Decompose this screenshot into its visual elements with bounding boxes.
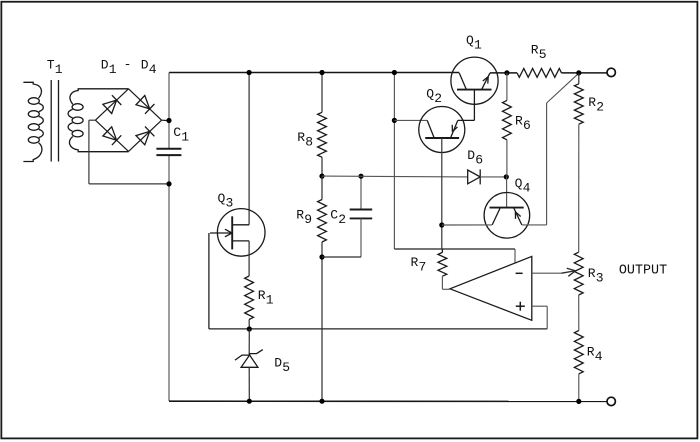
wire bottom ground rail bbox=[169, 400, 607, 402]
wire R1 bottom to junction bbox=[248, 320, 250, 330]
diode D6 bbox=[468, 169, 481, 184]
wire node to R2 bbox=[578, 73, 580, 84]
resistor R2 bbox=[574, 84, 583, 124]
resistor R7 bbox=[438, 249, 447, 276]
wire left vertical from top rail through C1 bbox=[168, 73, 170, 401]
svg-text:D: D bbox=[467, 148, 475, 163]
wire drop to op-amp top edge bbox=[514, 249, 516, 263]
svg-text:R: R bbox=[587, 344, 595, 359]
resistor R1 bbox=[245, 276, 254, 320]
bridge rectifier frame wires bbox=[95, 89, 166, 152]
svg-text:5: 5 bbox=[282, 360, 290, 375]
svg-text:4: 4 bbox=[595, 349, 603, 364]
wire R9 top lead bbox=[321, 176, 323, 199]
resistor R8 bbox=[318, 112, 327, 157]
svg-text:D: D bbox=[141, 58, 149, 73]
transformer T1 core bbox=[51, 80, 58, 162]
wire R6 bottom to D6 node bbox=[506, 140, 508, 177]
svg-text:5: 5 bbox=[539, 47, 547, 62]
wire R8 to node bbox=[321, 157, 323, 176]
svg-text:6: 6 bbox=[475, 153, 483, 168]
transistor Q3 bbox=[210, 209, 265, 257]
junction dot Q1 emitter / R5 / R6 bbox=[504, 70, 509, 75]
transistor Q4 bbox=[484, 193, 530, 239]
wire R1 junction to D5 bbox=[248, 329, 250, 355]
junction dot D5 ground bbox=[247, 399, 252, 404]
wire R2 bottom to R3 top bbox=[578, 124, 580, 252]
resistor R6 bbox=[503, 100, 512, 139]
capacitor C2 bbox=[350, 210, 373, 219]
wire branch to op-amp inverting side bbox=[394, 248, 515, 250]
svg-text:Q: Q bbox=[466, 33, 474, 48]
svg-text:3: 3 bbox=[226, 196, 234, 211]
wire Q4 collector lead to Q2 base line bbox=[442, 224, 492, 226]
wire R7 bottom to op-amp output bbox=[442, 276, 450, 289]
svg-text:R: R bbox=[515, 114, 523, 129]
svg-text:Q: Q bbox=[426, 87, 434, 102]
svg-text:R: R bbox=[297, 130, 305, 145]
svg-text:1: 1 bbox=[181, 130, 189, 145]
svg-text:R: R bbox=[296, 208, 304, 223]
transformer T1 primary winding bbox=[23, 82, 43, 161]
wire op-amp non-inverting input bbox=[532, 306, 547, 329]
wire V+ branch vertical bbox=[393, 73, 395, 250]
junction dot C2 top bbox=[358, 174, 363, 179]
svg-text:2: 2 bbox=[596, 100, 604, 115]
svg-text:3: 3 bbox=[596, 270, 604, 285]
svg-text:C: C bbox=[173, 125, 181, 140]
wire Q3 drain to top rail bbox=[248, 73, 250, 225]
junction dot top rail / R8 bbox=[319, 70, 324, 75]
wire R4 to ground rail bbox=[578, 374, 580, 402]
svg-text:1: 1 bbox=[109, 62, 117, 77]
wire Q4 emitter to R5/R2 node bbox=[522, 74, 579, 225]
svg-text:D: D bbox=[101, 58, 109, 73]
svg-text:2: 2 bbox=[338, 212, 346, 227]
svg-text:4: 4 bbox=[149, 62, 157, 77]
junction dot R8/R9 node bbox=[319, 174, 324, 179]
svg-text:-: - bbox=[124, 57, 132, 72]
op-amp U1 bbox=[450, 256, 532, 320]
junction dot R9 ground bbox=[319, 399, 324, 404]
capacitor C1 bbox=[156, 149, 181, 155]
resistor R9 bbox=[318, 200, 327, 243]
svg-text:1: 1 bbox=[55, 62, 63, 77]
svg-text:R: R bbox=[258, 288, 266, 303]
junction dot top rail / Q3 bbox=[247, 70, 252, 75]
svg-text:T: T bbox=[47, 58, 55, 73]
wire Q4 base lead bbox=[506, 177, 508, 208]
wire top rail to R8 bbox=[321, 73, 323, 113]
svg-text:9: 9 bbox=[304, 212, 312, 227]
diode D1 (bridge top-left) bbox=[103, 95, 121, 113]
transistor Q2 bbox=[419, 107, 475, 153]
svg-text:Q: Q bbox=[218, 191, 226, 206]
resistor R5 bbox=[517, 69, 561, 78]
junction node bridge output + bbox=[166, 118, 171, 123]
transistor Q1 bbox=[451, 57, 498, 120]
svg-text:2: 2 bbox=[434, 91, 442, 106]
junction dot D6/R6/Q4 base bbox=[504, 174, 509, 179]
svg-text:R: R bbox=[588, 266, 596, 281]
wire Q3 gate feedback rail bbox=[209, 233, 547, 329]
transformer T1 secondary winding bbox=[68, 89, 129, 152]
potentiometer R3 bbox=[574, 252, 583, 295]
junction dot Q2 base / Q4 collector bbox=[439, 222, 444, 227]
svg-text:D: D bbox=[274, 356, 282, 371]
junction node C1 bottom bbox=[166, 181, 171, 186]
svg-text:Q: Q bbox=[515, 176, 523, 191]
junction dot R5/R2 node bbox=[576, 70, 581, 75]
wire D6 cathode to node bbox=[480, 176, 506, 178]
svg-text:4: 4 bbox=[523, 181, 531, 196]
svg-text:6: 6 bbox=[523, 118, 531, 133]
svg-text:1: 1 bbox=[474, 38, 482, 53]
svg-text:R: R bbox=[531, 43, 539, 58]
wire op-amp inverting input to R3 wiper bbox=[532, 272, 562, 274]
wire Q2 collector lead bbox=[394, 119, 427, 121]
diode D4 (bridge bottom-right) bbox=[136, 127, 154, 145]
junction dot R4 ground bbox=[576, 399, 581, 404]
wire R9 bottom to ground rail bbox=[321, 242, 323, 401]
svg-text:R: R bbox=[411, 255, 419, 270]
wire C2 bottom lead bbox=[360, 218, 362, 257]
wire C2 top lead bbox=[360, 176, 362, 209]
zener diode D5 bbox=[235, 350, 263, 368]
wire Q3 source to R1 bbox=[248, 241, 250, 276]
wire top rail right segment (Q1 emitter to terminal) bbox=[490, 72, 607, 74]
wire R8/R9 node to D6 bbox=[322, 175, 468, 178]
wire C2 bottom to R9 bottom bbox=[322, 256, 361, 258]
resistor R4 bbox=[574, 331, 583, 374]
junction dot Q2 collector bbox=[392, 118, 397, 123]
svg-text:R: R bbox=[588, 95, 596, 110]
svg-text:7: 7 bbox=[419, 259, 427, 274]
R3 wiper arrow bbox=[562, 268, 576, 276]
svg-text:C: C bbox=[330, 208, 338, 223]
wire R3 to R4 bbox=[578, 295, 580, 331]
svg-text:1: 1 bbox=[266, 293, 274, 308]
output terminal - (bottom right) bbox=[607, 397, 615, 405]
output terminal + (top right) bbox=[607, 68, 615, 76]
svg-text:8: 8 bbox=[305, 135, 313, 150]
junction dot R9/C2 bottom node bbox=[319, 254, 324, 259]
junction dot R1/D5/gate rail bbox=[247, 326, 252, 331]
svg-text:OUTPUT: OUTPUT bbox=[619, 263, 667, 278]
wire R6 top lead bbox=[506, 73, 508, 101]
wire top V+ rail bbox=[169, 72, 459, 74]
diode D3 (bridge bottom-left) bbox=[103, 127, 121, 145]
diode D2 (bridge top-right) bbox=[136, 96, 154, 114]
wire bridge left corner to bottom return bbox=[89, 120, 169, 184]
wire D5 to ground rail bbox=[248, 368, 250, 402]
wire Q2 base down to Q4 collector node bbox=[441, 138, 443, 249]
junction dot top rail branch bbox=[392, 70, 397, 75]
